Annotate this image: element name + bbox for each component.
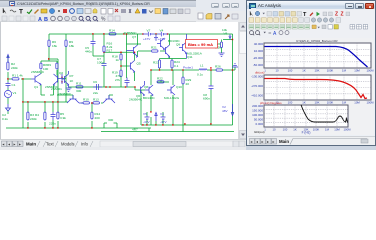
svg-text:150.000: 150.000 [252, 109, 263, 113]
resistor R9 [56, 63, 58, 69]
resistor R18 [120, 54, 122, 60]
svg-text:V5: V5 [143, 112, 147, 116]
svg-text:R4: R4 [35, 113, 39, 117]
resistor R28 [220, 42, 222, 48]
svg-text:240k: 240k [30, 117, 37, 121]
curve phase red [265, 79, 368, 99]
svg-text:R22: R22 [157, 77, 163, 81]
curve delay black [301, 105, 348, 123]
wire output node [151, 67, 235, 125]
capacitor C5 [91, 40, 96, 46]
svg-text:50.000: 50.000 [254, 118, 264, 122]
svg-text:R1 1.4k: R1 1.4k [12, 74, 23, 78]
svg-text:C1: C1 [12, 83, 16, 87]
svg-text:Info: Info [81, 142, 89, 147]
svg-text:▸: ▸ [19, 142, 21, 147]
ground right [232, 64, 238, 67]
svg-text:Q11: Q11 [187, 55, 193, 59]
svg-text:◂: ◂ [8, 142, 10, 147]
svg-text:MJL1302G: MJL1302G [164, 96, 180, 100]
schematic canvas [0, 22, 238, 139]
resistor R12 [91, 112, 93, 119]
svg-text:Q10: Q10 [176, 85, 182, 89]
capacitor C6 [93, 84, 102, 90]
svg-text:V7: V7 [147, 29, 151, 33]
svg-text:2N5484C: 2N5484C [31, 70, 45, 74]
svg-text:▸: ▸ [14, 142, 16, 147]
svg-text:Main: Main [279, 139, 289, 144]
capacitor C8 [209, 85, 214, 90]
resistor R6 [48, 40, 50, 47]
resistor R26 [216, 69, 223, 71]
svg-text:-50.000: -50.000 [253, 63, 264, 67]
svg-text:R13: R13 [93, 98, 99, 102]
svg-text:200: 200 [95, 116, 100, 120]
svg-text:0.000: 0.000 [255, 122, 263, 126]
resistor R23 [158, 60, 160, 68]
svg-text:R 9(E5-1)_KP904_Borisov.CIR: R 9(E5-1)_KP904_Borisov.CIR [296, 39, 338, 43]
svg-text:100M: 100M [344, 128, 352, 132]
ground Q3 [66, 88, 72, 92]
svg-text:Q9: Q9 [176, 43, 180, 47]
svg-text:-47V: -47V [143, 120, 150, 124]
svg-text:V6: V6 [224, 32, 228, 36]
transistor Q6 [141, 81, 145, 96]
transistor Q10 [167, 85, 175, 95]
svg-text:Q7: Q7 [132, 35, 136, 39]
resistor R11 [76, 86, 83, 88]
svg-text:300: 300 [108, 118, 113, 122]
svg-text:-20.000: -20.000 [253, 56, 264, 60]
ac toolbar rows [247, 9, 375, 38]
svg-text:300: 300 [76, 89, 81, 93]
svg-text:220u: 220u [49, 122, 56, 126]
frame plot1 [264, 43, 371, 68]
svg-text:ph(out) Degrees: ph(out) Degrees [260, 101, 282, 105]
inductor L1 [199, 69, 207, 70]
svg-text:10: 10 [275, 69, 279, 73]
resistor R22 [157, 81, 164, 83]
svg-text:BD140C: BD140C [143, 96, 155, 100]
svg-text:Text: Text [46, 142, 55, 147]
transistor Q11 [166, 45, 170, 57]
svg-text:F (Hz): F (Hz) [302, 131, 311, 135]
y labels plot2 [251, 75, 263, 98]
svg-text:Main: Main [26, 142, 36, 147]
svg-text:-47V: -47V [160, 120, 167, 124]
svg-text:1K: 1K [302, 69, 306, 73]
resistor R1 [12, 78, 19, 80]
svg-text:0.1: 0.1 [174, 64, 179, 68]
svg-text:10M: 10M [354, 69, 360, 73]
row1 [250, 11, 253, 16]
capacitor C1 [6, 82, 11, 88]
row3 [249, 25, 310, 29]
svg-text:1K: 1K [70, 79, 75, 83]
svg-text:100u: 100u [97, 61, 104, 65]
curve gain blue [265, 47, 368, 68]
svg-text:2N3904C: 2N3904C [129, 98, 143, 102]
svg-text:V4: V4 [160, 29, 164, 33]
svg-text:240k: 240k [11, 66, 18, 70]
app icon [9, 1, 15, 6]
row4 [250, 31, 254, 35]
resistor R3 [27, 112, 29, 120]
svg-text:▸: ▸ [267, 139, 269, 144]
resistor R21 [152, 50, 159, 52]
wire mirror row [41, 95, 113, 128]
svg-text:A: A [273, 31, 277, 37]
svg-text:Q8: Q8 [144, 85, 148, 89]
svg-text:0.2u: 0.2u [2, 117, 8, 121]
transistor Q14 mirror right [103, 95, 115, 103]
transistor Q13 mirror left [67, 95, 83, 103]
svg-text:690n: 690n [203, 97, 210, 101]
svg-text:-130.000: -130.000 [251, 75, 263, 79]
transistor Q3 [62, 71, 69, 88]
svg-text:R14: R14 [109, 29, 115, 33]
bias box [186, 40, 218, 49]
svg-text:48V: 48V [222, 109, 228, 113]
ground input [6, 104, 11, 111]
transistor Q11b [179, 34, 187, 59]
transistor Q8 [145, 85, 153, 96]
svg-text:◂: ◂ [250, 139, 252, 144]
toolbar row 2 [0, 15, 196, 22]
svg-text:T: T [303, 12, 307, 18]
svg-text:1M: 1M [325, 128, 330, 132]
svg-text:▸: ▸ [273, 139, 275, 144]
wire supply v7 v4 [127, 34, 233, 45]
row2 [249, 18, 297, 22]
resistor R5 [57, 112, 59, 119]
resistor R8 [40, 63, 42, 69]
svg-text:100: 100 [288, 101, 293, 105]
svg-text:10K: 10K [315, 69, 320, 73]
svg-text:1M: 1M [342, 69, 347, 73]
battery V5 [145, 116, 150, 120]
svg-text:GD(out): GD(out) [254, 130, 265, 134]
strip under AC window [246, 146, 376, 150]
source V1 [4, 90, 11, 97]
svg-text:4R7: 4R7 [132, 128, 138, 132]
x labels plot1 [264, 69, 374, 73]
wire feedback row [23, 59, 68, 128]
AC Analysis window [246, 0, 376, 146]
arrow up input [7, 55, 9, 63]
svg-text:1M: 1M [342, 101, 347, 105]
svg-text:R7: R7 [70, 74, 74, 78]
capacitor C3 [51, 112, 56, 120]
toolbar row 1 [0, 7, 196, 15]
grid plot3 [264, 105, 348, 127]
source V6 arrow [229, 35, 231, 39]
svg-text:Q2: Q2 [59, 71, 63, 75]
svg-text:10K: 10K [315, 101, 320, 105]
svg-text:10M: 10M [354, 101, 360, 105]
resistor R15 [103, 46, 105, 52]
svg-text:▸: ▸ [262, 139, 264, 144]
svg-text:100M: 100M [367, 69, 375, 73]
arrow up V5V3 [155, 113, 157, 122]
transistor Q5 [129, 61, 135, 73]
svg-text:440u: 440u [85, 50, 92, 54]
svg-text:Q1: Q1 [34, 85, 38, 89]
svg-text:22u: 22u [93, 91, 98, 95]
wire diff pair tail [41, 59, 57, 76]
resistor R9b [65, 40, 67, 47]
resistor R14 [109, 33, 116, 35]
ground supply center [154, 34, 158, 41]
svg-text:C6: C6 [93, 80, 97, 84]
svg-text:-270.000: -270.000 [251, 84, 263, 88]
junction dots [7, 33, 233, 128]
svg-text:1K: 1K [302, 101, 306, 105]
svg-text:1k: 1k [116, 58, 120, 62]
resistor R2 [7, 62, 9, 70]
wire bottom mid rail [141, 112, 233, 125]
vertical scrollbar [238, 22, 246, 139]
svg-text:10M: 10M [334, 128, 340, 132]
svg-text:R9: R9 [47, 63, 51, 67]
svg-text:27k: 27k [115, 78, 120, 82]
svg-text:Z: Z [341, 12, 344, 18]
svg-text:20: 20 [186, 82, 190, 86]
svg-text:40.000: 40.000 [254, 42, 264, 46]
transistor Q1 [31, 74, 41, 86]
resistor R29 [182, 77, 184, 84]
wire input node [8, 56, 31, 104]
svg-text:-410.000: -410.000 [251, 94, 263, 98]
svg-text:R10: R10 [83, 98, 89, 102]
capacitor C7 [102, 64, 107, 66]
wire right snubber [183, 34, 233, 132]
svg-text:2N5401: 2N5401 [51, 87, 62, 91]
svg-text:200.000: 200.000 [252, 104, 263, 108]
svg-text:Probe1: Probe1 [183, 66, 193, 70]
svg-text:100: 100 [288, 69, 293, 73]
svg-text:100.000: 100.000 [252, 113, 263, 117]
wire vas column [69, 44, 142, 90]
svg-text:+47V: +47V [158, 37, 166, 41]
arrow down V2 [231, 104, 233, 116]
svg-text:100K: 100K [313, 128, 320, 132]
grid plot1 [264, 43, 371, 68]
svg-text:18k: 18k [69, 44, 74, 48]
svg-text:10.000: 10.000 [254, 49, 264, 53]
labels blue [143, 37, 228, 124]
svg-text:L1: L1 [200, 64, 204, 68]
caption buttons of maximized child [196, 0, 246, 11]
svg-text:3.9k: 3.9k [60, 116, 66, 120]
wire bottom rail left [6, 102, 234, 132]
resistor R12m [93, 102, 100, 104]
svg-text:10: 10 [272, 128, 276, 132]
plot panel backgrounds [264, 43, 371, 68]
bottom tabs + hscroll [0, 139, 246, 147]
svg-text:◂: ◂ [2, 142, 4, 147]
wire output stage upper [127, 44, 187, 78]
transistor Q4b [157, 38, 166, 50]
svg-text:100K: 100K [327, 101, 334, 105]
ground R28 [219, 53, 225, 57]
battery V7 [143, 32, 155, 37]
frame plot2 [264, 75, 371, 100]
wire top rail [49, 34, 135, 102]
resistor R24 [171, 60, 173, 68]
svg-text:Q5: Q5 [137, 62, 141, 66]
svg-text:◂: ◂ [256, 139, 258, 144]
svg-text:100: 100 [283, 128, 288, 132]
svg-text:2N3886C: 2N3886C [58, 92, 72, 96]
wire diff collectors [41, 79, 66, 96]
svg-text:1K: 1K [293, 128, 297, 132]
labels green [2, 28, 228, 132]
svg-text:R26: R26 [215, 65, 221, 69]
svg-text:Models: Models [61, 142, 75, 147]
svg-text:R23: R23 [153, 61, 159, 65]
resistor R10 [83, 102, 90, 104]
svg-text:0.1u: 0.1u [197, 73, 203, 77]
x labels plot3 [264, 128, 351, 132]
svg-text:V3: V3 [160, 112, 164, 116]
svg-text:100K: 100K [327, 69, 334, 73]
transistor Q4 [127, 45, 138, 57]
y labels plot3 [252, 104, 263, 126]
battery V4 [158, 32, 168, 37]
frame plot3 [264, 105, 348, 127]
svg-text:100M: 100M [367, 101, 375, 105]
y labels plot1 [253, 42, 264, 67]
toolbar segment right [196, 11, 246, 22]
svg-text:R11: R11 [76, 82, 82, 86]
svg-text:Bias = 99 mA: Bias = 99 mA [188, 42, 213, 47]
svg-text:16k: 16k [52, 44, 57, 48]
svg-text:+47V: +47V [143, 37, 151, 41]
svg-text:V1: V1 [13, 91, 17, 95]
transistor Q2 [54, 74, 63, 85]
svg-text:R21: R21 [151, 46, 157, 50]
grid plot2 [264, 75, 371, 100]
svg-text:R17: R17 [107, 49, 113, 53]
battery V3 [161, 116, 166, 120]
resistor R4 [44, 112, 46, 120]
resistor R19 [120, 70, 122, 77]
svg-text:1: 1 [264, 69, 266, 73]
svg-text:Z: Z [335, 12, 338, 18]
capacitor C10 [125, 78, 130, 88]
x labels plot2 [264, 101, 374, 105]
wire q8 q10 bases [141, 80, 169, 125]
main window title bar [0, 0, 196, 7]
